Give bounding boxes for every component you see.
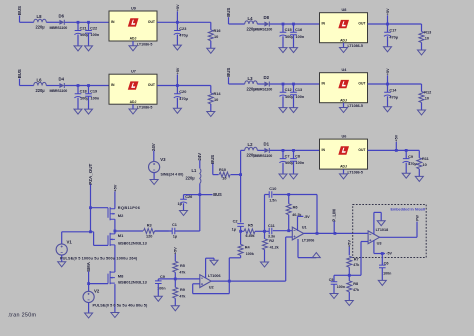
junction [292, 149, 295, 152]
op-amp U2 LT1006 [200, 274, 221, 290]
wire to C9 [158, 278, 175, 280]
junction [405, 149, 408, 152]
ground [210, 260, 218, 265]
svg-text:RQB11P06: RQB11P06 [118, 205, 141, 210]
svg-text:P_LIM: P_LIM [332, 209, 337, 222]
junction [287, 193, 290, 196]
svg-text:220µ: 220µ [36, 88, 46, 93]
capacitor C16 100n [290, 24, 305, 48]
wire M3 source [114, 284, 116, 312]
svg-text:SINE(24 4 60): SINE(24 4 60) [161, 173, 185, 177]
wire [65, 85, 109, 87]
svg-text:1µ: 1µ [178, 202, 182, 206]
capacitor C10 1.5n (integrator) [265, 187, 318, 231]
ground [85, 46, 93, 51]
wire [270, 83, 320, 85]
svg-text:10: 10 [423, 163, 427, 167]
U1 V- wire to inverted ground [298, 239, 316, 258]
svg-text:MBRS1100: MBRS1100 [255, 88, 273, 92]
svg-text:10: 10 [222, 177, 226, 181]
node +5V flag [386, 68, 390, 84]
capacitor C12 100µ [279, 84, 293, 108]
svg-text:SMA: SMA [86, 262, 91, 272]
node BUS flag, row U8 [226, 8, 231, 24]
junction [228, 280, 231, 283]
wire OUT [368, 23, 422, 25]
junction [77, 84, 80, 87]
diode D6 MBRS1100 [50, 13, 68, 30]
node +5V flag [176, 67, 180, 85]
wire [229, 23, 245, 25]
junction [348, 274, 351, 277]
wire from bus rail [241, 149, 245, 151]
capacitor C20 470µ [174, 86, 188, 109]
junction [87, 21, 90, 24]
svg-text:PZA_OUT: PZA_OUT [88, 163, 93, 184]
svg-text:47k: 47k [179, 295, 186, 299]
inductor L3 220µ [245, 76, 258, 92]
svg-text:41.2k: 41.2k [270, 246, 280, 250]
junction [292, 23, 295, 26]
svg-text:10: 10 [425, 97, 429, 101]
svg-text:3.3n: 3.3n [268, 234, 275, 238]
svg-text:LT1086-5: LT1086-5 [137, 43, 152, 47]
wire M3 gate [89, 283, 108, 285]
svg-text:LT1018: LT1018 [376, 228, 389, 232]
resistor R2 41.2k [263, 231, 280, 262]
svg-text:+5V: +5V [176, 4, 180, 11]
wire [65, 21, 109, 23]
diode D2 MBRS1100 [255, 75, 273, 92]
wire bus rail (L2 feed) [240, 150, 242, 222]
svg-text:24V: 24V [197, 153, 202, 161]
wire [229, 83, 245, 85]
junction [77, 21, 80, 24]
svg-text:100µ: 100µ [80, 33, 89, 37]
node BUS flag (net label), row U7 [17, 69, 22, 85]
svg-text:220µ: 220µ [186, 176, 196, 181]
svg-text:100k: 100k [246, 252, 255, 256]
capacitor C9 100n [155, 275, 166, 296]
svg-text:100µ: 100µ [80, 96, 89, 100]
svg-text:MBRS1100: MBRS1100 [50, 26, 68, 30]
junction node B [263, 230, 266, 233]
inductor L1 220µ [186, 168, 201, 184]
junction [287, 229, 290, 232]
svg-text:U7: U7 [131, 70, 136, 74]
wire OUT [157, 21, 211, 23]
op-amp U3 LT1018 [368, 228, 388, 245]
svg-text:OUT: OUT [358, 148, 366, 152]
U3 V+ wire to ground [374, 212, 381, 234]
resistor R5 47k (upper) [173, 261, 187, 279]
svg-text:C16: C16 [295, 28, 302, 32]
ground [384, 47, 392, 52]
resistor R5 6.49k [241, 224, 265, 238]
capacitor C14 470µ [384, 84, 398, 107]
svg-text:470µ: 470µ [179, 97, 188, 101]
resistor R3 120 [115, 224, 169, 239]
ground [330, 294, 338, 299]
junction [334, 232, 337, 235]
svg-text:BUS: BUS [17, 6, 22, 15]
ground [171, 306, 179, 311]
inverted ground [312, 253, 320, 258]
svg-text:R13: R13 [424, 31, 431, 35]
ground [402, 173, 410, 178]
ground [279, 174, 287, 179]
svg-text:100µ: 100µ [285, 95, 294, 99]
svg-text:100n: 100n [337, 285, 345, 289]
svg-text:+5V: +5V [347, 240, 352, 247]
node PWM flag [415, 215, 419, 221]
svg-text:C10: C10 [269, 187, 276, 191]
ground [290, 108, 298, 113]
svg-text:BUS: BUS [210, 155, 215, 164]
svg-text:U6: U6 [342, 135, 347, 139]
wire ADJ [343, 169, 345, 174]
wire [199, 184, 201, 195]
svg-text:MBRS1100: MBRS1100 [255, 154, 273, 158]
ground [290, 48, 298, 53]
svg-text:LT1086-5: LT1086-5 [348, 44, 363, 48]
voltage source V2 PULSE [83, 284, 100, 313]
ground [173, 108, 181, 113]
resistor R14 10 [208, 86, 221, 112]
wire [257, 83, 264, 85]
capacitor C15 100µ [279, 24, 293, 48]
wire [270, 23, 320, 25]
op-amp U1 LT1006 [292, 226, 314, 243]
svg-text:MBRS1100: MBRS1100 [255, 28, 273, 32]
svg-text:100n: 100n [296, 95, 305, 99]
node +5V flag [386, 8, 390, 24]
wire U2 output [211, 280, 286, 282]
wire [46, 21, 59, 23]
ground [207, 48, 215, 53]
svg-text:100n: 100n [383, 272, 391, 276]
diode D1 MBRS1100 [255, 141, 273, 158]
diode D4 MBRS1100 [50, 77, 68, 94]
junction [282, 23, 285, 26]
svg-text:R9: R9 [180, 288, 185, 292]
svg-text:V3: V3 [160, 157, 166, 162]
svg-text:L8: L8 [37, 14, 43, 19]
junction node A [239, 230, 242, 233]
svg-text:470µ: 470µ [389, 35, 398, 39]
svg-text:10: 10 [425, 37, 429, 41]
svg-text:IN: IN [322, 82, 326, 86]
svg-text:C21: C21 [80, 27, 88, 31]
svg-text:IN: IN [111, 83, 115, 87]
svg-text:C22: C22 [90, 27, 97, 31]
junction [176, 21, 179, 24]
ground [150, 180, 158, 185]
diode D8 MBRS1100 [255, 15, 273, 32]
ground [290, 174, 298, 179]
svg-text:L1: L1 [192, 168, 197, 173]
node BUS flag above R10 [210, 155, 215, 175]
junction [87, 282, 90, 285]
wire U3 + input from divider [349, 242, 368, 276]
svg-text:LT1006: LT1006 [302, 238, 315, 242]
junction [89, 206, 92, 209]
svg-text:+5V: +5V [395, 134, 399, 141]
wire U2 - input [175, 278, 200, 280]
svg-text:C14: C14 [389, 89, 397, 93]
svg-text:100n: 100n [91, 96, 100, 100]
svg-text:IN: IN [322, 22, 326, 26]
svg-text:R5: R5 [180, 264, 186, 268]
wire [257, 149, 264, 151]
transistor M2 RQB11P06 (PMOS) [108, 207, 115, 220]
svg-text:24V: 24V [151, 143, 156, 151]
node BUS flag, row U4 [226, 68, 231, 84]
svg-text:U2: U2 [209, 286, 214, 290]
svg-text:R4: R4 [245, 245, 251, 249]
svg-text:C2: C2 [233, 219, 238, 223]
capacitor C9 470µ [403, 150, 417, 173]
wire to output [316, 195, 318, 234]
svg-text:R12: R12 [424, 91, 431, 95]
svg-text:R7: R7 [354, 257, 359, 261]
svg-text:OUT: OUT [358, 82, 366, 86]
svg-text:C1: C1 [172, 223, 178, 227]
svg-text:120: 120 [146, 234, 152, 238]
svg-text:C7: C7 [285, 155, 290, 159]
junction [239, 173, 242, 176]
svg-text:R3: R3 [147, 224, 152, 228]
resistor R8 47k [347, 275, 360, 300]
transistor M1 BSB012N03L13 (NMOS) [108, 233, 115, 246]
ground [111, 313, 119, 318]
svg-text:47k: 47k [353, 263, 360, 267]
ground [345, 301, 353, 306]
svg-text:D1: D1 [264, 141, 270, 146]
junction [381, 252, 384, 255]
svg-text:C19: C19 [90, 90, 97, 94]
ground [261, 262, 269, 267]
capacitor C22 100n [85, 22, 100, 46]
svg-text:470µ: 470µ [389, 95, 398, 99]
capacitor C8 100n [290, 150, 305, 174]
svg-text:D2: D2 [264, 75, 270, 80]
node +5V flag (comparator divider) [347, 240, 352, 256]
wire [270, 149, 320, 151]
wire M2 drain [114, 219, 116, 231]
svg-text:470µ: 470µ [179, 34, 188, 38]
capacitor C19 100n [85, 86, 100, 110]
ground [74, 46, 82, 51]
svg-text:M8: M8 [118, 273, 124, 278]
svg-text:BUS: BUS [226, 8, 231, 17]
resistor R10 10 [213, 168, 241, 181]
svg-text:100n: 100n [296, 161, 305, 165]
ground [173, 45, 181, 50]
svg-text:10: 10 [214, 35, 218, 39]
inductor L8 220µ [34, 14, 47, 30]
svg-text:C8: C8 [295, 155, 301, 159]
dashed box Embedded in Nios [353, 205, 427, 258]
wire V1 to M1 gate (dogleg) [62, 232, 108, 246]
svg-text:BSB012N03L13: BSB012N03L13 [118, 240, 147, 245]
svg-text:1µ: 1µ [232, 228, 236, 232]
svg-text:Embedded in NiosII: Embedded in NiosII [390, 207, 425, 211]
junction [87, 84, 90, 87]
svg-text:L6: L6 [37, 77, 43, 82]
resistor R11 10 [417, 150, 430, 176]
svg-text:+5V: +5V [386, 8, 390, 15]
wire M1 source to M3 drain [114, 245, 116, 272]
junction [292, 83, 295, 86]
junction [316, 232, 319, 235]
svg-text:C9: C9 [408, 155, 413, 159]
node P_LIM flag [332, 209, 337, 234]
ground [129, 109, 137, 114]
wire U1 output [304, 232, 368, 234]
wire [20, 21, 34, 23]
svg-text:220µ: 220µ [36, 25, 46, 30]
svg-text:PW: PW [415, 215, 419, 221]
junction [386, 83, 389, 86]
svg-text:BUS: BUS [226, 68, 231, 77]
U2 V+ wire to ground [206, 258, 214, 278]
svg-text:C23: C23 [179, 27, 186, 31]
ground [340, 108, 348, 113]
node SMA flag [86, 262, 91, 283]
svg-text:IN: IN [111, 20, 115, 24]
ground [279, 48, 287, 53]
wire [257, 23, 264, 25]
resistor R9 47k (lower) [173, 279, 187, 306]
svg-text:100µ: 100µ [285, 35, 294, 39]
svg-text:-5V: -5V [304, 215, 310, 219]
node BUS flag (net label), row U9 [17, 6, 22, 22]
wire BUS stub [184, 194, 213, 196]
svg-text:C20: C20 [179, 90, 186, 94]
svg-text:1µ: 1µ [173, 234, 177, 238]
svg-text:ADJ: ADJ [340, 165, 347, 169]
svg-text:R14: R14 [214, 92, 222, 96]
resistor R16 10 [208, 22, 220, 48]
wire [46, 85, 59, 87]
junction [176, 84, 179, 87]
junction [114, 230, 117, 233]
svg-text:R6: R6 [293, 206, 298, 210]
node PZA_OUT flag and rail [88, 163, 93, 231]
svg-text:IN: IN [322, 148, 326, 152]
svg-text:D8: D8 [264, 15, 270, 20]
capacitor C5 100n [329, 275, 345, 293]
svg-text:R11: R11 [422, 157, 430, 161]
resistor R13 10 [419, 24, 431, 50]
svg-text:47k: 47k [353, 288, 360, 292]
svg-text:ADJ: ADJ [340, 98, 347, 102]
resistor R7 47k [347, 256, 360, 275]
ground [58, 262, 66, 267]
svg-text:BSB012N03L13: BSB012N03L13 [118, 280, 147, 285]
wire ADJ [132, 104, 134, 109]
svg-text:R5: R5 [248, 224, 254, 228]
ground [378, 280, 386, 285]
ground [377, 221, 385, 226]
svg-text:LT1086-5: LT1086-5 [137, 106, 152, 110]
capacitor C1 1µ [155, 223, 200, 238]
svg-text:+5V: +5V [173, 247, 178, 254]
node +5V flag (reference divider) [173, 247, 178, 261]
svg-text:R16: R16 [214, 29, 221, 33]
wire ADJ [132, 41, 134, 46]
junction [89, 230, 92, 233]
svg-text:M1: M1 [118, 233, 124, 238]
capacitor C21 100µ [74, 22, 88, 46]
ground [85, 109, 93, 114]
svg-text:ADJ: ADJ [130, 100, 137, 104]
svg-text:BUS: BUS [213, 192, 222, 197]
svg-text:6.49k: 6.49k [246, 234, 256, 238]
svg-text:C9: C9 [160, 275, 165, 279]
regulator U6 LT1086-5 [320, 135, 368, 175]
wire U1 + input riser [286, 236, 293, 238]
junction [386, 23, 389, 26]
svg-text:C26: C26 [185, 195, 192, 199]
svg-text:47k: 47k [179, 271, 186, 275]
capacitor C7 100µ [279, 150, 293, 174]
node +5V flag above M2 [112, 184, 117, 208]
svg-text:+5V: +5V [112, 184, 117, 191]
svg-text:10: 10 [214, 98, 218, 102]
ground [340, 174, 348, 179]
wire M1 drain [114, 231, 116, 234]
svg-text:L3: L3 [248, 76, 254, 81]
svg-text:100µ: 100µ [285, 161, 294, 165]
svg-text:.tran 250m: .tran 250m [8, 313, 37, 319]
wire OUT [157, 85, 211, 87]
capacitor C6 100n [379, 254, 391, 281]
junction [282, 83, 285, 86]
wire to C5 [334, 274, 349, 276]
capacitor C11 3.3n [265, 224, 293, 238]
regulator U9 LT1086-5 [109, 7, 157, 47]
U3 V- wire to -5V flag [374, 240, 393, 255]
node 24V flag at L1 [197, 153, 202, 169]
capacitor C26 1µ [178, 195, 193, 211]
svg-text:C17: C17 [389, 29, 396, 33]
svg-text:L4: L4 [248, 16, 254, 21]
regulator U7 LT1086-5 [109, 70, 157, 110]
svg-text:C15: C15 [285, 28, 293, 32]
junction [174, 278, 177, 281]
resistor R12 10 [419, 84, 431, 110]
svg-text:LT1086-5: LT1086-5 [348, 104, 363, 108]
wire OUT [368, 83, 422, 85]
ground [418, 50, 426, 55]
svg-text:U3: U3 [377, 242, 382, 246]
node +5V flag [395, 134, 399, 152]
svg-text:U1: U1 [302, 226, 308, 230]
inductor L6 220µ [34, 77, 47, 93]
ground [384, 107, 392, 112]
svg-text:ADJ: ADJ [340, 38, 347, 42]
svg-text:M2: M2 [118, 213, 124, 218]
svg-text:C18: C18 [80, 90, 88, 94]
svg-text:U9: U9 [131, 7, 136, 11]
svg-text:R10: R10 [219, 168, 226, 172]
svg-text:BUS: BUS [17, 69, 22, 78]
svg-text:R2: R2 [269, 239, 274, 243]
wire to M2 gate [91, 207, 109, 209]
svg-text:OUT: OUT [148, 83, 156, 87]
